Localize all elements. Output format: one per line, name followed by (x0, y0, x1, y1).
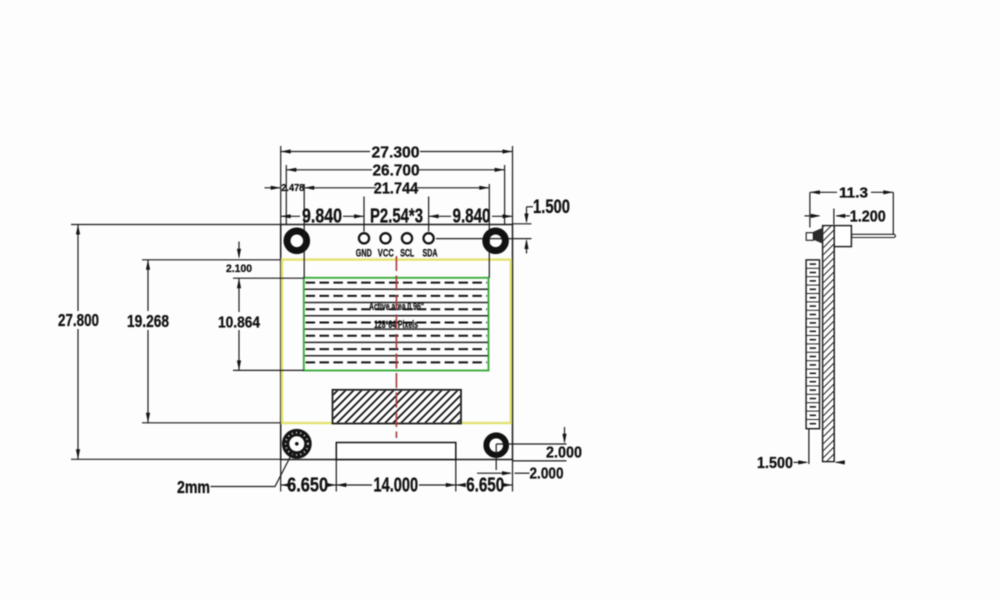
side header pin (851, 234, 895, 237)
leader 2mm (211, 451, 294, 487)
side lower edge line (808, 429, 810, 464)
pin hole GND (359, 233, 369, 243)
dim 2.000 lower right (477, 472, 530, 474)
side pcb hatched (823, 226, 835, 462)
dim 10.864 (233, 278, 304, 370)
svg-text:19.268: 19.268 (127, 311, 169, 331)
svg-text:1.500: 1.500 (757, 455, 793, 472)
dim 27.300 (281, 146, 513, 225)
dim 14.000 (336, 460, 456, 492)
side solder fillet (813, 228, 822, 244)
pin hole SCL (402, 233, 412, 243)
pin labels (356, 248, 438, 260)
svg-text:9.840: 9.840 (453, 206, 491, 228)
svg-text:2.100: 2.100 (226, 263, 252, 275)
svg-text:2.000: 2.000 (530, 466, 564, 483)
dim 11.3 (810, 192, 893, 234)
dim 6.650 right (456, 459, 513, 491)
svg-text:2mm: 2mm (177, 477, 210, 497)
pin hole SDA (424, 233, 434, 243)
mount hole bottom-right (486, 435, 506, 455)
svg-text:21.744: 21.744 (374, 180, 419, 197)
pin hole VCC (380, 233, 390, 243)
svg-text:SDA: SDA (423, 248, 438, 260)
svg-text:2.478: 2.478 (281, 183, 304, 194)
svg-text:P2.54*3: P2.54*3 (370, 206, 423, 228)
dim 2.478 (265, 187, 281, 189)
dim 2.000 upper right (496, 427, 566, 470)
board outline (281, 225, 513, 460)
dim 2.100 (238, 242, 240, 258)
dim 19.268 (142, 260, 281, 423)
bottom notch rectangle (336, 443, 456, 460)
svg-text:VCC: VCC (378, 248, 394, 260)
dim 1.500 side (794, 461, 842, 463)
side header body (834, 226, 851, 247)
svg-text:1.500: 1.500 (533, 197, 570, 218)
mount hole top-left (287, 231, 307, 251)
svg-text:26.700: 26.700 (373, 162, 420, 179)
svg-text:11.3: 11.3 (839, 185, 868, 202)
display dashed raster lines (306, 283, 487, 363)
side glass stack (806, 260, 819, 429)
dim 26.700 (286, 165, 504, 225)
svg-text:SCL: SCL (400, 248, 414, 260)
glass outline yellow (282, 260, 511, 423)
dim 1.500 top right (513, 207, 533, 254)
display active area green (304, 278, 489, 371)
dim 9.840 right (429, 197, 513, 232)
svg-text:2.000: 2.000 (546, 445, 582, 462)
svg-text:27.300: 27.300 (372, 145, 420, 162)
mount hole bottom-left (stippled) (286, 433, 308, 455)
dim 6.650 left (281, 459, 337, 491)
svg-text:6.650: 6.650 (287, 474, 328, 496)
svg-text:10.864: 10.864 (218, 315, 260, 332)
centerline red (395, 256, 397, 438)
side pin stub (806, 233, 813, 241)
display solid raster lines (305, 289, 488, 356)
dim 9.840 left (281, 197, 364, 232)
mount hole top-right (486, 231, 506, 251)
svg-text:1.200: 1.200 (850, 208, 886, 225)
dim 27.800 (71, 225, 281, 460)
extension line pin row to right (436, 238, 532, 240)
svg-text:14.000: 14.000 (374, 474, 419, 496)
svg-text:6.650: 6.650 (466, 474, 504, 496)
dim 21.744 (304, 184, 489, 278)
svg-text:GND: GND (356, 248, 372, 260)
dim 1.200 (805, 209, 851, 225)
svg-text:9.840: 9.840 (302, 206, 342, 228)
svg-text:27.800: 27.800 (58, 310, 99, 330)
FPC hatched connector (333, 390, 462, 424)
